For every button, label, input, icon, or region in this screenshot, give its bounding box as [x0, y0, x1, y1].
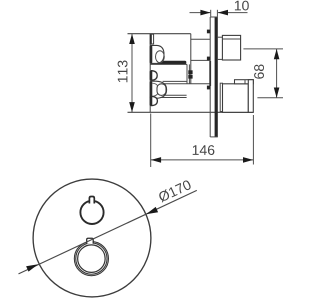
small port D — [152, 96, 158, 105]
upper port dark face — [150, 45, 153, 63]
volume knob end cap — [248, 80, 253, 113]
front volume knob tab — [87, 238, 94, 243]
dim 146 arrow left-pointing — [151, 157, 161, 163]
plate mounting tab 3 — [207, 86, 210, 90]
dark band under upper port — [155, 61, 186, 65]
volume knob ring divider — [244, 80, 246, 84]
dim 10 label — [235, 1, 249, 11]
temperature knob bevel line — [222, 38, 240, 40]
valve body right edge — [190, 34, 192, 84]
dim 146 arrow right-pointing — [243, 157, 253, 163]
upper cartridge stem top — [191, 38, 210, 40]
volume knob collar — [220, 83, 222, 111]
body mid line — [150, 63, 187, 65]
front view escutcheon circle — [33, 179, 151, 297]
dim 10 left leader — [190, 12, 211, 14]
plate mounting tab 1 — [207, 30, 210, 34]
dim 10 extension line b — [216, 10, 218, 17]
front volume knob inner ring — [78, 245, 106, 273]
retaining clip upper square — [188, 70, 192, 74]
dim 113 arrow up — [129, 34, 135, 44]
upper inlet port (D-shape) — [151, 45, 164, 63]
front volume knob ring split hairline — [75, 242, 108, 275]
dim 10 arrow right-pointing — [200, 10, 210, 16]
temperature knob body — [222, 35, 240, 60]
dim 146 line — [151, 159, 253, 161]
dim 10 arrow left-pointing — [218, 10, 228, 16]
top-left tab on body — [150, 34, 153, 44]
upper cartridge stem bottom — [191, 59, 210, 61]
wall plate face (dark bar) — [215, 17, 218, 137]
dim 146 left extension — [150, 114, 152, 168]
dim 113 line — [131, 34, 133, 112]
front temperature knob tab — [89, 197, 94, 204]
wall plate left edge — [209, 17, 211, 137]
small port B — [152, 71, 158, 81]
dia 170 arrow lower-left — [26, 264, 38, 271]
front volume knob outer ring band — [75, 242, 108, 275]
lower port inset arc — [152, 83, 159, 96]
cartridge line y97 — [157, 97, 187, 99]
lower port dark face — [150, 81, 153, 98]
dia 170 arrow upper-right — [146, 207, 158, 214]
dim 113 label — [118, 61, 128, 83]
dim 146 label — [193, 145, 215, 155]
front temperature knob circle — [80, 201, 103, 224]
dim 68 line — [276, 49, 278, 98]
dim 68 label — [254, 65, 264, 79]
mid section inner vertical 2 — [188, 64, 190, 83]
mid section inner vertical 1 — [186, 64, 188, 83]
volume knob top ring block — [235, 80, 254, 84]
dim 10 right leader — [218, 12, 248, 14]
plate mounting tab 2 — [207, 57, 210, 61]
temperature knob collar bottom — [218, 58, 223, 60]
dim 113 arrow down — [129, 102, 135, 112]
lower outlet port (large D-shape) — [151, 81, 166, 98]
dim 10 extension line a — [210, 10, 212, 17]
dim 68 arrow up — [274, 49, 280, 59]
dim 68 top extension — [243, 48, 283, 50]
retaining clip lower square — [188, 75, 192, 79]
lower port inner profile — [157, 84, 166, 96]
cartridge line y95 — [164, 94, 187, 96]
dia 170 dimension line — [19, 190, 197, 274]
dim 68 bottom extension — [257, 97, 283, 99]
dim 68 arrow down — [274, 88, 280, 98]
wall plate top edge — [210, 16, 218, 18]
wall plate left edge dark segment — [209, 61, 211, 86]
volume knob body — [223, 84, 249, 113]
wall plate bottom edge — [210, 136, 218, 138]
dim 146 right extension — [252, 115, 254, 165]
temperature knob collar top — [218, 36, 223, 38]
lower section top line — [163, 83, 210, 85]
extension line top (113 dim) / body top edge — [128, 33, 191, 35]
dia 170 label — [158, 179, 193, 202]
extension line bottom (113 dim) / body and knob bottom edge — [128, 111, 254, 113]
valve body left edge — [149, 34, 151, 113]
cartridge line y81 — [163, 80, 187, 82]
upper port opening — [156, 51, 165, 63]
